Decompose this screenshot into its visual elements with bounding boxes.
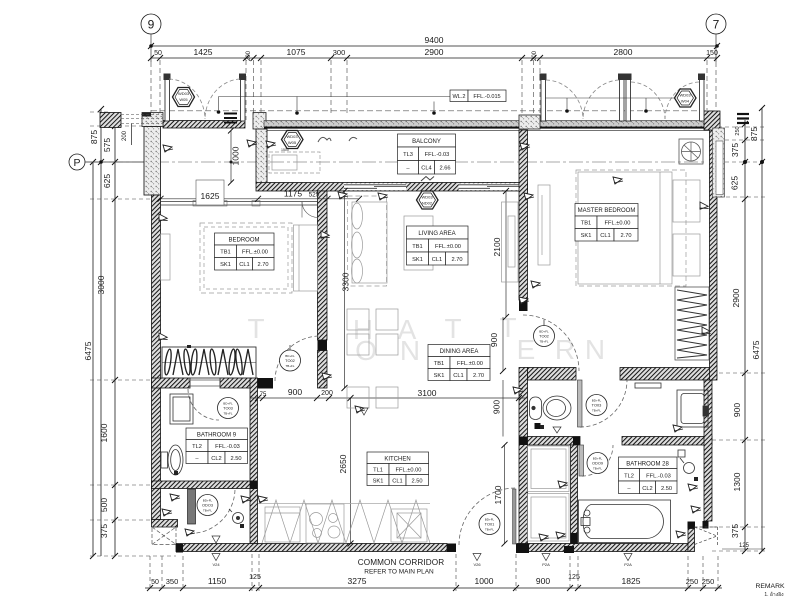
svg-text:9: 9 xyxy=(148,18,155,32)
svg-text:BATHROOM 9: BATHROOM 9 xyxy=(197,433,237,439)
svg-text:R: R xyxy=(555,334,575,365)
svg-text:CL4: CL4 xyxy=(421,166,431,172)
svg-text:T: T xyxy=(499,312,516,343)
svg-text:WD03: WD03 xyxy=(679,93,691,98)
svg-text:250: 250 xyxy=(702,577,715,586)
svg-text:2.70: 2.70 xyxy=(257,262,268,268)
svg-text:TB1: TB1 xyxy=(412,244,422,250)
svg-text:2.66: 2.66 xyxy=(439,166,450,172)
svg-text:CL2: CL2 xyxy=(211,456,221,462)
svg-text:REMARK: REMARK xyxy=(755,583,785,590)
svg-text:TO03: TO03 xyxy=(223,406,233,411)
svg-text:250: 250 xyxy=(735,126,741,135)
svg-text:2.50: 2.50 xyxy=(661,486,672,492)
svg-text:REFER TO MAIN PLAN: REFER TO MAIN PLAN xyxy=(364,569,434,576)
svg-text:2900: 2900 xyxy=(731,288,741,307)
svg-text:ODO3: ODO3 xyxy=(202,503,213,508)
svg-text:2.70: 2.70 xyxy=(451,257,462,263)
svg-text:P2A: P2A xyxy=(624,562,632,567)
svg-text:TB+FL: TB+FL xyxy=(223,412,232,416)
svg-text:MASTER BEDROOM: MASTER BEDROOM xyxy=(578,208,636,214)
svg-text:900: 900 xyxy=(732,403,742,417)
svg-text:SK1: SK1 xyxy=(434,373,445,379)
svg-text:TB+FL: TB+FL xyxy=(592,409,601,413)
svg-text:V24: V24 xyxy=(212,562,220,567)
svg-text:ND02: ND02 xyxy=(422,201,433,206)
svg-text:SK1: SK1 xyxy=(220,262,231,268)
svg-text:W05: W05 xyxy=(288,140,297,145)
svg-text:O: O xyxy=(355,335,377,366)
svg-text:6475: 6475 xyxy=(751,340,761,359)
svg-text:300: 300 xyxy=(333,48,346,57)
svg-text:2100: 2100 xyxy=(492,237,502,256)
svg-text:625: 625 xyxy=(730,176,740,190)
svg-text:BALCONY: BALCONY xyxy=(412,139,441,145)
svg-text:1425: 1425 xyxy=(194,47,213,57)
svg-text:WD03: WD03 xyxy=(286,134,298,139)
svg-text:LIVING AREA: LIVING AREA xyxy=(418,231,455,237)
svg-text:TO03: TO03 xyxy=(592,403,602,408)
svg-text:1000: 1000 xyxy=(475,576,494,586)
svg-text:575: 575 xyxy=(102,138,112,152)
svg-text:BEDROOM: BEDROOM xyxy=(228,238,259,244)
svg-text:9400: 9400 xyxy=(425,35,444,45)
svg-text:FFL.±0.00: FFL.±0.00 xyxy=(435,244,461,250)
svg-text:2.50: 2.50 xyxy=(230,456,241,462)
svg-text:350: 350 xyxy=(166,577,179,586)
svg-text:TL2: TL2 xyxy=(192,444,202,450)
svg-text:375: 375 xyxy=(99,524,109,538)
svg-text:T: T xyxy=(444,313,461,344)
svg-text:KITCHEN: KITCHEN xyxy=(384,457,410,463)
svg-text:WD03: WD03 xyxy=(178,91,190,96)
svg-text:875: 875 xyxy=(89,130,99,144)
svg-text:TO02: TO02 xyxy=(539,334,549,339)
svg-text:FFL.±0.00: FFL.±0.00 xyxy=(242,250,268,256)
svg-text:FFL.±0.00: FFL.±0.00 xyxy=(605,221,631,227)
svg-text:75: 75 xyxy=(260,392,267,398)
svg-text:TO02: TO02 xyxy=(285,358,295,363)
svg-text:50: 50 xyxy=(151,579,159,586)
svg-text:CL2: CL2 xyxy=(642,486,652,492)
svg-text:TL1: TL1 xyxy=(373,468,383,474)
svg-text:P: P xyxy=(73,157,80,169)
svg-text:T: T xyxy=(247,313,264,344)
svg-text:2.70: 2.70 xyxy=(473,373,484,379)
svg-text:1625: 1625 xyxy=(201,191,220,201)
svg-text:DINING AREA: DINING AREA xyxy=(440,349,479,355)
svg-text:3100: 3100 xyxy=(418,388,437,398)
svg-text:N: N xyxy=(585,334,605,365)
svg-text:FFL.-0.03: FFL.-0.03 xyxy=(425,152,450,158)
svg-text:W05: W05 xyxy=(179,97,188,102)
svg-text:BATHROOM 28: BATHROOM 28 xyxy=(626,462,669,468)
svg-text:TB+FL: TB+FL xyxy=(485,528,494,532)
svg-text:TB1: TB1 xyxy=(581,221,591,227)
svg-text:COMMON CORRIDOR: COMMON CORRIDOR xyxy=(358,558,445,567)
svg-text:CL1: CL1 xyxy=(600,233,610,239)
svg-text:2900: 2900 xyxy=(425,47,444,57)
svg-text:125: 125 xyxy=(739,543,750,549)
svg-text:2.50: 2.50 xyxy=(411,479,422,485)
svg-text:200: 200 xyxy=(532,50,538,61)
svg-text:CL1: CL1 xyxy=(432,257,442,263)
svg-text:SK1: SK1 xyxy=(412,257,423,263)
svg-text:1700: 1700 xyxy=(493,485,503,504)
svg-text:FFL.±0.00: FFL.±0.00 xyxy=(396,468,422,474)
svg-text:2800: 2800 xyxy=(614,47,633,57)
svg-text:375: 375 xyxy=(730,524,740,538)
svg-text:1175: 1175 xyxy=(284,189,303,199)
svg-text:TB+FL: TB+FL xyxy=(285,364,294,368)
svg-text:625: 625 xyxy=(102,174,112,188)
svg-text:525: 525 xyxy=(309,192,320,199)
svg-text:1825: 1825 xyxy=(622,576,641,586)
svg-text:E: E xyxy=(517,334,536,365)
svg-text:3300: 3300 xyxy=(341,272,351,291)
svg-text:TL3: TL3 xyxy=(403,152,413,158)
svg-text:875: 875 xyxy=(749,127,759,141)
svg-text:TO01: TO01 xyxy=(485,522,495,527)
svg-text:TB1: TB1 xyxy=(434,361,444,367)
svg-text:CL1: CL1 xyxy=(239,262,249,268)
svg-text:1000: 1000 xyxy=(231,146,241,165)
svg-text:SK1: SK1 xyxy=(373,479,384,485)
svg-text:1075: 1075 xyxy=(287,47,306,57)
svg-text:TB+FL: TB+FL xyxy=(539,340,548,344)
svg-text:CL1: CL1 xyxy=(453,373,463,379)
svg-text:1150: 1150 xyxy=(208,576,227,586)
svg-text:V26: V26 xyxy=(473,562,481,567)
svg-text:150: 150 xyxy=(706,50,718,57)
svg-text:FFL.-0.03: FFL.-0.03 xyxy=(215,444,240,450)
svg-text:N: N xyxy=(400,335,420,366)
svg-text:200: 200 xyxy=(246,50,252,61)
svg-text:500: 500 xyxy=(99,498,109,512)
svg-text:TB1: TB1 xyxy=(220,250,230,256)
svg-text:P2A: P2A xyxy=(542,562,550,567)
svg-text:2.70: 2.70 xyxy=(620,233,631,239)
svg-text:250: 250 xyxy=(686,577,699,586)
svg-text:50: 50 xyxy=(154,50,162,57)
svg-text:200: 200 xyxy=(321,390,333,397)
svg-text:200: 200 xyxy=(122,130,128,141)
svg-text:ODO9: ODO9 xyxy=(592,461,603,466)
svg-text:WD03: WD03 xyxy=(421,195,433,200)
svg-text:CL1: CL1 xyxy=(392,479,402,485)
svg-text:7: 7 xyxy=(713,18,720,32)
svg-text:375: 375 xyxy=(730,143,740,157)
svg-text:6475: 6475 xyxy=(83,341,93,360)
svg-text:FFL.±0.00: FFL.±0.00 xyxy=(457,361,483,367)
svg-text:900: 900 xyxy=(492,400,502,414)
svg-text:2650: 2650 xyxy=(338,454,348,473)
svg-text:SK1: SK1 xyxy=(581,233,592,239)
svg-text:1. อ้างอิง: 1. อ้างอิง xyxy=(764,591,784,598)
svg-text:FFL.-0.015: FFL.-0.015 xyxy=(473,94,500,100)
svg-text:3000: 3000 xyxy=(96,275,106,294)
svg-text:TL2: TL2 xyxy=(624,474,634,480)
svg-text:1600: 1600 xyxy=(99,423,109,442)
svg-text:W04: W04 xyxy=(681,99,690,104)
svg-text:3275: 3275 xyxy=(348,576,367,586)
svg-text:TB+FL: TB+FL xyxy=(203,509,212,513)
svg-text:WL.2: WL.2 xyxy=(452,94,465,100)
svg-text:900: 900 xyxy=(489,333,499,347)
svg-text:900: 900 xyxy=(288,387,302,397)
svg-text:1300: 1300 xyxy=(732,472,742,491)
svg-text:900: 900 xyxy=(536,576,550,586)
svg-text:TB+FL: TB+FL xyxy=(593,467,602,471)
svg-text:FFL.-0.03: FFL.-0.03 xyxy=(646,474,671,480)
